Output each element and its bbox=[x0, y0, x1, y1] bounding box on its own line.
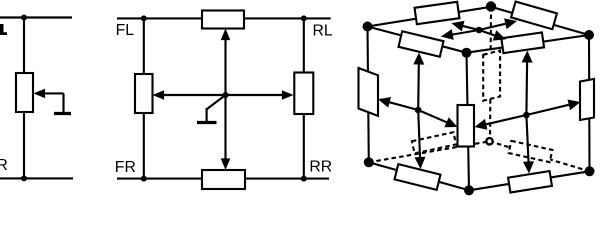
wire: wiper down to ground bbox=[62, 93, 64, 112]
node corner Bt bbox=[486, 1, 496, 11]
wire: right junction to right pot bbox=[526, 105, 568, 115]
wire: center horizontal wiper line bbox=[164, 94, 282, 96]
wiper arrowhead into front pot left side bbox=[444, 117, 457, 127]
wire: hidden bottom edge Lb-Bb (dashed) bbox=[369, 141, 490, 162]
potentiometer top Bt-Rt body bbox=[511, 2, 557, 30]
svg-text:R: R bbox=[0, 157, 8, 174]
potentiometer top Ft-Rt body bbox=[501, 32, 544, 53]
potentiometer left vertical edge body bbox=[359, 68, 379, 116]
label L (clipped at left edge) bbox=[0, 24, 7, 35]
wire: front vertical edge bbox=[467, 53, 470, 191]
wire: left junction to front pot bbox=[418, 110, 446, 122]
wiper arrowhead into Bt-Rt pot bbox=[504, 18, 517, 29]
wire: right vertical edge bbox=[588, 35, 591, 171]
node hidden corner Bb (open circle) bbox=[486, 138, 492, 144]
wire: ground drop bbox=[206, 108, 208, 121]
wire: top edge Lt-Bt bbox=[368, 7, 492, 27]
potentiometer P2 top body bbox=[202, 11, 244, 29]
potentiometer top Lt-Ft body bbox=[398, 31, 443, 56]
wire: right junction down bbox=[526, 115, 528, 162]
node corner Lt bbox=[363, 22, 373, 32]
node L junction dot bbox=[21, 15, 27, 21]
wire: L top rail bbox=[0, 16, 72, 18]
wire: P1 wiper lead bbox=[45, 92, 63, 94]
ground bbox=[197, 121, 217, 124]
node right wiper junction dot bbox=[523, 112, 530, 119]
potentiometer P4 left body bbox=[135, 74, 153, 113]
svg-text:FL: FL bbox=[116, 22, 135, 39]
potentiometer front vertical edge body bbox=[458, 105, 475, 147]
node center junction dot bbox=[223, 92, 229, 98]
wire: top edge Ft-Rt bbox=[467, 35, 590, 53]
wire: FR-RR bottom rail bbox=[117, 178, 329, 180]
potentiometer hidden back vertical body (dashed) bbox=[483, 51, 500, 101]
potentiometer hidden bottom-right body (dashed) bbox=[509, 141, 553, 162]
wiper arrowhead up at Ft-Rt pot bottom bbox=[522, 51, 533, 63]
node corner Rt bbox=[584, 30, 594, 40]
wire: right junction to front pot bbox=[486, 115, 526, 124]
potentiometer bottom Lb-Fb body bbox=[394, 164, 440, 190]
potentiometer right vertical edge body bbox=[580, 79, 594, 120]
wiper arrowhead into right vertical pot bbox=[568, 100, 581, 111]
node FR junction dot bbox=[141, 176, 147, 182]
wire: top-face wiper to Lt-Ft pot bbox=[453, 30, 479, 35]
wire: left junction down bbox=[418, 110, 420, 157]
wiper arrowhead into Lt-Bt pot bbox=[452, 21, 465, 32]
svg-text:RR: RR bbox=[309, 158, 332, 175]
wire: center vertical wiper line bbox=[224, 40, 226, 160]
wire: center to ground diagonal bbox=[207, 95, 226, 109]
wire: right junction up bbox=[525, 63, 528, 116]
potentiometer bottom Fb-Rb body bbox=[508, 171, 552, 192]
node top-face center dot bbox=[476, 27, 483, 34]
node FL junction dot bbox=[141, 15, 147, 21]
wire: R bottom rail bbox=[0, 177, 73, 179]
potentiometer top Lt-Bt body bbox=[415, 2, 460, 24]
wire: hidden bottom edge Bb-Rb (dashed) bbox=[490, 141, 590, 171]
wire: left vertical rail bbox=[143, 18, 145, 178]
wiper arrowhead into left vertical pot bbox=[378, 97, 391, 108]
wiper arrowhead into front pot right side bbox=[475, 119, 488, 130]
wire: right vertical rail bbox=[303, 18, 305, 178]
svg-text:FR: FR bbox=[115, 159, 136, 176]
wiper arrowhead up at Lt-Ft pot bottom bbox=[413, 53, 424, 65]
node corner Rb bbox=[585, 166, 595, 176]
wire: top edge Bt-Rt bbox=[491, 7, 589, 35]
wire: left vertical edge bbox=[368, 27, 369, 163]
wiper arrowhead down at Lb-Fb pot top bbox=[415, 157, 426, 169]
wiper arrowhead of P2 (up) bbox=[221, 29, 231, 41]
wire: left junction to left pot bbox=[390, 102, 419, 110]
potentiometer P3 bottom body bbox=[202, 170, 245, 189]
wire: left junction up bbox=[417, 65, 420, 111]
potentiometer P5 right body bbox=[294, 73, 313, 115]
node RL junction dot bbox=[301, 15, 307, 21]
svg-text:RL: RL bbox=[313, 23, 333, 40]
potentiometer P1 body bbox=[16, 73, 33, 112]
wiper arrowhead of P5 (right) bbox=[282, 90, 294, 100]
wiper arrowhead into Lt-Ft pot bbox=[441, 29, 454, 40]
node RR junction dot bbox=[301, 176, 307, 182]
potentiometer hidden bottom-left body (dashed) bbox=[412, 132, 456, 153]
node R junction dot bbox=[21, 175, 27, 181]
node corner Ft bbox=[462, 48, 472, 58]
wire: top edge Lt-Ft bbox=[368, 27, 467, 53]
wiper arrowhead of P4 (left) bbox=[153, 90, 165, 100]
wire: top-face wiper to Ft-Rt pot bbox=[479, 30, 495, 35]
wire: bottom edge Lb-Fb bbox=[369, 162, 469, 190]
wire: top-face wiper to Bt-Rt pot bbox=[479, 24, 505, 30]
ground bbox=[54, 112, 71, 115]
node corner Fb bbox=[464, 185, 474, 195]
wire: vertical rail between L and R bbox=[23, 18, 25, 179]
wire: bottom edge Fb-Rb bbox=[469, 171, 590, 190]
node left wiper junction dot bbox=[415, 107, 422, 114]
wire: hidden back vertical edge (dashed) bbox=[490, 7, 491, 142]
wiper arrowhead of P3 (down) bbox=[221, 158, 231, 170]
wiper arrowhead of P1 bbox=[34, 89, 46, 99]
wiper arrowhead down at Fb-Rb pot top bbox=[523, 161, 534, 173]
node corner Lb bbox=[364, 157, 374, 167]
wire: FL-RL top rail bbox=[117, 17, 331, 19]
wire: top-face wiper to Lt-Bt pot bbox=[463, 26, 479, 30]
wiper arrowhead into Ft-Rt pot bbox=[493, 30, 506, 40]
